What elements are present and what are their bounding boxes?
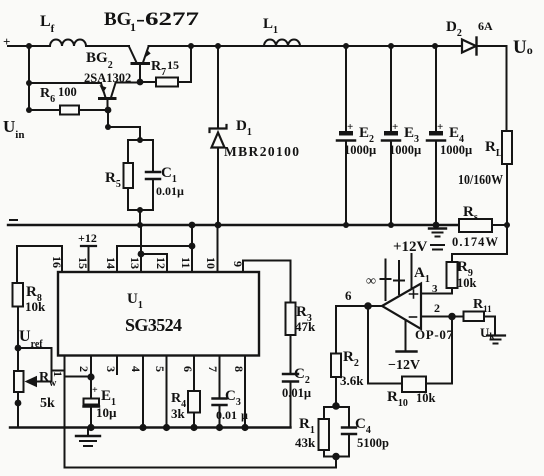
svg-text:11: 11 bbox=[179, 257, 193, 268]
node dot pin11 bracket bbox=[189, 243, 196, 250]
wire op-amp output node 6 bbox=[336, 305, 382, 307]
wire bracket pins 14-11 bbox=[117, 245, 192, 247]
ground symbol at bus bbox=[429, 227, 446, 229]
pin 11 wire from bus bbox=[191, 225, 193, 272]
node dot E1 ground bbox=[87, 424, 94, 431]
resistor R10 10k bbox=[402, 377, 426, 393]
R1C4 frame bottom bar bbox=[324, 456, 349, 458]
pin 2 wire bbox=[65, 376, 92, 378]
pin 15 wire bbox=[88, 246, 90, 272]
wire feedback via R10 bbox=[368, 306, 402, 384]
transistor BG2 collector slant bbox=[111, 83, 116, 98]
svg-text:3: 3 bbox=[432, 283, 438, 295]
node dot x29 y110 bbox=[26, 107, 32, 113]
svg-text:+: + bbox=[392, 121, 398, 133]
ground symbol at R11 bbox=[487, 334, 505, 336]
svg-text:10k: 10k bbox=[457, 276, 477, 290]
pin 4 wire bbox=[142, 357, 144, 428]
wire BG2 base lead down bbox=[107, 100, 109, 110]
resistor R9 10k bbox=[451, 288, 453, 294]
node dot bus x346 bbox=[343, 222, 349, 228]
svg-text:5100p: 5100p bbox=[357, 436, 389, 450]
diode D1 MBR20100 bbox=[217, 46, 219, 128]
svg-text:+12: +12 bbox=[78, 231, 97, 245]
node dot rail x435 bbox=[432, 43, 438, 49]
wire top rail BG1 to corner bbox=[149, 45, 463, 47]
pin 16 wire to R8 bbox=[17, 246, 62, 283]
node dot rail x346 bbox=[343, 43, 349, 49]
node dot BG2 base / R6 bbox=[105, 107, 112, 114]
svg-text:+: + bbox=[437, 121, 443, 133]
node dot pin13 bracket bbox=[138, 251, 145, 258]
pin 13 wire from bus bbox=[140, 225, 142, 272]
svg-text:16: 16 bbox=[50, 256, 64, 268]
resistor R6 bbox=[29, 109, 60, 111]
wire bottom bus bbox=[8, 224, 459, 226]
pin 12 wire bbox=[166, 254, 168, 272]
svg-text:6: 6 bbox=[181, 366, 195, 372]
wire analog ground rail bbox=[10, 426, 291, 428]
wire R7 right up to rail bbox=[190, 46, 192, 82]
node dot Uref bbox=[15, 345, 22, 352]
node dot R5C1 top bbox=[137, 137, 143, 143]
svg-text:10k: 10k bbox=[25, 299, 46, 314]
pin 6 wire with resistor R4 3k bbox=[193, 357, 195, 391]
wire BG2 collector to node bbox=[116, 82, 141, 84]
svg-text:14: 14 bbox=[104, 257, 118, 269]
op-amp supply stub pin (left) bbox=[385, 260, 387, 301]
resistor R8 10k bbox=[13, 283, 24, 307]
wire top rail left bbox=[8, 45, 50, 47]
wire pin 3 noninverting input bbox=[421, 293, 452, 295]
pin 5 wire bbox=[166, 357, 168, 428]
node dot R1C4 bottom bbox=[332, 453, 340, 461]
transistor BG1 base bar bbox=[132, 62, 149, 65]
node - (input negative terminal) bbox=[10, 219, 17, 221]
op-amp minus input marking bbox=[410, 316, 417, 318]
resistor R2 3.6k bbox=[335, 306, 337, 354]
capacitor C1 (right branch) bbox=[152, 140, 154, 172]
wire -12V supply stub bbox=[405, 320, 407, 351]
svg-text:10/160W: 10/160W bbox=[458, 173, 503, 188]
R5C1 frame bottom bar bbox=[128, 209, 153, 211]
svg-text:8: 8 bbox=[232, 366, 246, 372]
svg-text:0.01µ: 0.01µ bbox=[216, 408, 248, 422]
capacitor E1 10u bbox=[90, 377, 92, 399]
node dot bus x218 bbox=[215, 222, 222, 229]
capacitor C2 0.01u bbox=[283, 373, 298, 375]
resistor R3 47k bbox=[286, 303, 296, 336]
wire BG1 base lead down bbox=[139, 65, 141, 83]
svg-text:2: 2 bbox=[77, 366, 91, 372]
node dot R5C1 bottom bbox=[137, 207, 143, 213]
potentiometer Rw 5k bbox=[14, 371, 24, 392]
svg-text:2: 2 bbox=[434, 301, 440, 315]
wire R5C1 to bus bbox=[139, 210, 141, 225]
svg-text:SG3524: SG3524 bbox=[125, 315, 182, 335]
svg-text:1: 1 bbox=[51, 371, 65, 377]
pin 7 wire with capacitor C3 bbox=[219, 357, 221, 398]
resistor R5 (left branch) bbox=[127, 140, 129, 163]
pin 9 wire to R3 bbox=[243, 261, 291, 303]
op-amp A1 OP-07 triangle bbox=[382, 284, 421, 330]
node dot rail x191 bbox=[188, 43, 194, 49]
op-amp plus input marking bbox=[410, 290, 418, 298]
wire top rail to BG1 bbox=[86, 45, 129, 47]
pin 1 wire long column bbox=[64, 357, 66, 468]
wire node down bbox=[107, 110, 109, 127]
node dot pin 2 bbox=[87, 373, 94, 380]
diode D2 bbox=[462, 40, 476, 53]
svg-text:3.6k: 3.6k bbox=[340, 373, 364, 388]
wire pin 2 inverting input / output line bbox=[421, 316, 464, 318]
transistor BG2 emitter slant with arrow bbox=[101, 83, 106, 98]
svg-text:4: 4 bbox=[129, 366, 143, 372]
wire bottom return to pin 1 column bbox=[65, 457, 337, 468]
svg-text:47k: 47k bbox=[295, 319, 316, 334]
inductor Lf bbox=[50, 40, 86, 47]
svg-text:10k: 10k bbox=[416, 391, 436, 405]
node dot rail x218 bbox=[215, 43, 221, 49]
svg-text:-6277: -6277 bbox=[136, 9, 200, 30]
svg-text:1000µ: 1000µ bbox=[389, 143, 421, 157]
svg-text:6: 6 bbox=[345, 288, 352, 303]
resistor Rs 0.174W bbox=[459, 219, 492, 232]
wire bracket pins 13-12 bbox=[141, 253, 167, 255]
svg-text:15: 15 bbox=[167, 58, 179, 72]
svg-text:12: 12 bbox=[154, 257, 168, 269]
op-amp U1 chip SG3524 body bbox=[58, 272, 259, 356]
svg-text:9: 9 bbox=[231, 261, 245, 267]
node dot pin 2 line bbox=[448, 313, 456, 321]
resistor R7 bbox=[140, 81, 156, 83]
capacitor E2 1000u bbox=[345, 46, 347, 131]
pin 8 wire bbox=[244, 357, 246, 428]
svg-text:7: 7 bbox=[206, 366, 220, 372]
op-amp supply stub pin (mid) bbox=[398, 261, 400, 294]
node dot x108 y127 bbox=[105, 124, 111, 130]
svg-text:10µ: 10µ bbox=[96, 405, 117, 420]
node dot bus x507 bbox=[504, 222, 510, 228]
svg-text:0.01µ: 0.01µ bbox=[156, 184, 184, 198]
node dot BG1 base / BG2 collector / R7 bbox=[137, 79, 144, 86]
svg-text:BG: BG bbox=[104, 9, 132, 30]
svg-text:∞: ∞ bbox=[366, 274, 376, 289]
node dot bus x192 bbox=[189, 222, 196, 229]
svg-text:−12V: −12V bbox=[388, 358, 420, 373]
svg-text:43k: 43k bbox=[295, 435, 316, 450]
svg-text:13: 13 bbox=[128, 257, 142, 269]
svg-text:+12V: +12V bbox=[393, 239, 428, 255]
wire +12V to op-amp bbox=[411, 254, 413, 288]
svg-text:100: 100 bbox=[58, 85, 77, 99]
resistor RL (load) bbox=[506, 46, 508, 131]
pin 10 wire from bus bbox=[217, 225, 219, 272]
wire Uref to pin 1 column bbox=[18, 348, 65, 371]
svg-text:1000µ: 1000µ bbox=[344, 143, 376, 157]
svg-text:15: 15 bbox=[76, 257, 90, 269]
node dot rail x391 bbox=[388, 43, 394, 49]
node dot output bbox=[364, 302, 372, 310]
resistor R11 bbox=[464, 312, 485, 322]
node dot bus x140 bbox=[137, 222, 143, 228]
svg-text:+: + bbox=[92, 385, 98, 396]
capacitor C4 5100p (right branch) bbox=[348, 407, 350, 427]
wire y83 to BG2 emitter bbox=[29, 82, 101, 84]
node dot x29 y83 bbox=[26, 80, 32, 86]
R5C1 frame top bar bbox=[128, 139, 153, 141]
transistor BG2 base bar bbox=[100, 97, 116, 100]
svg-text:3k: 3k bbox=[171, 406, 186, 421]
transistor BG1 collector slant bbox=[129, 47, 137, 63]
wire to R5C1 top bbox=[108, 127, 140, 140]
pin 14 wire bbox=[116, 246, 118, 272]
svg-text:+: + bbox=[347, 121, 353, 133]
resistor R1 43k (left branch) bbox=[323, 407, 325, 419]
node dot bus x391 bbox=[388, 222, 394, 228]
svg-text:0.01µ: 0.01µ bbox=[282, 386, 311, 400]
transistor BG1 emitter slant with arrow bbox=[143, 47, 149, 63]
pin 3 stub bbox=[116, 357, 118, 374]
capacitor E4 1000u bbox=[435, 46, 437, 131]
svg-text:OP-07: OP-07 bbox=[415, 327, 454, 342]
node dot R2 bottom / R1C4 top bbox=[332, 402, 340, 410]
capacitor E3 1000u bbox=[390, 46, 392, 131]
svg-text:0.174W: 0.174W bbox=[452, 235, 499, 249]
ground symbol under E1 bbox=[87, 428, 89, 436]
R1C4 frame top bar bbox=[324, 406, 349, 408]
svg-text:3: 3 bbox=[104, 366, 118, 372]
node dot bus x436 bbox=[433, 222, 440, 229]
svg-text:MBR20100: MBR20100 bbox=[224, 144, 299, 159]
node dot Rw bottom bbox=[15, 400, 22, 407]
svg-text:5k: 5k bbox=[40, 396, 55, 411]
wire left column down bbox=[28, 46, 30, 110]
node dot rail x29 bbox=[26, 43, 32, 49]
svg-text:6A: 6A bbox=[478, 19, 493, 33]
svg-text:10: 10 bbox=[204, 257, 218, 269]
svg-text:5: 5 bbox=[153, 366, 167, 372]
svg-text:1000µ: 1000µ bbox=[440, 143, 472, 157]
inductor L1 bbox=[264, 40, 300, 47]
